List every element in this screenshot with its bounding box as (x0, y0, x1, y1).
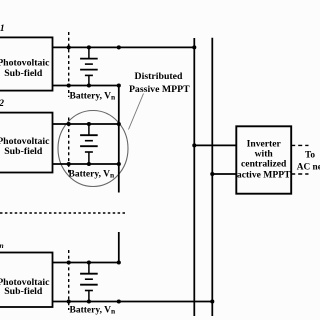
svg-text:n: n (0, 241, 4, 250)
svg-text:To: To (305, 150, 315, 160)
svg-text:centralized: centralized (241, 158, 287, 169)
svg-text:active MPPT: active MPPT (237, 170, 291, 181)
svg-text:Battery, Vn: Battery, Vn (70, 305, 117, 315)
svg-text:Photovoltaic: Photovoltaic (0, 58, 50, 69)
svg-text:Distributed: Distributed (135, 71, 183, 82)
svg-text:Battery, Vn: Battery, Vn (70, 91, 117, 101)
svg-text:AC netwo: AC netwo (297, 163, 320, 173)
svg-text:Sub-field: Sub-field (4, 286, 43, 297)
svg-text:Sub-field: Sub-field (4, 146, 43, 157)
svg-text:1: 1 (0, 24, 5, 34)
svg-text:Sub-field: Sub-field (4, 68, 43, 79)
svg-text:Battery, Vn: Battery, Vn (69, 169, 116, 179)
svg-text:2: 2 (0, 99, 4, 109)
svg-text:Passive MPPT: Passive MPPT (129, 84, 190, 95)
